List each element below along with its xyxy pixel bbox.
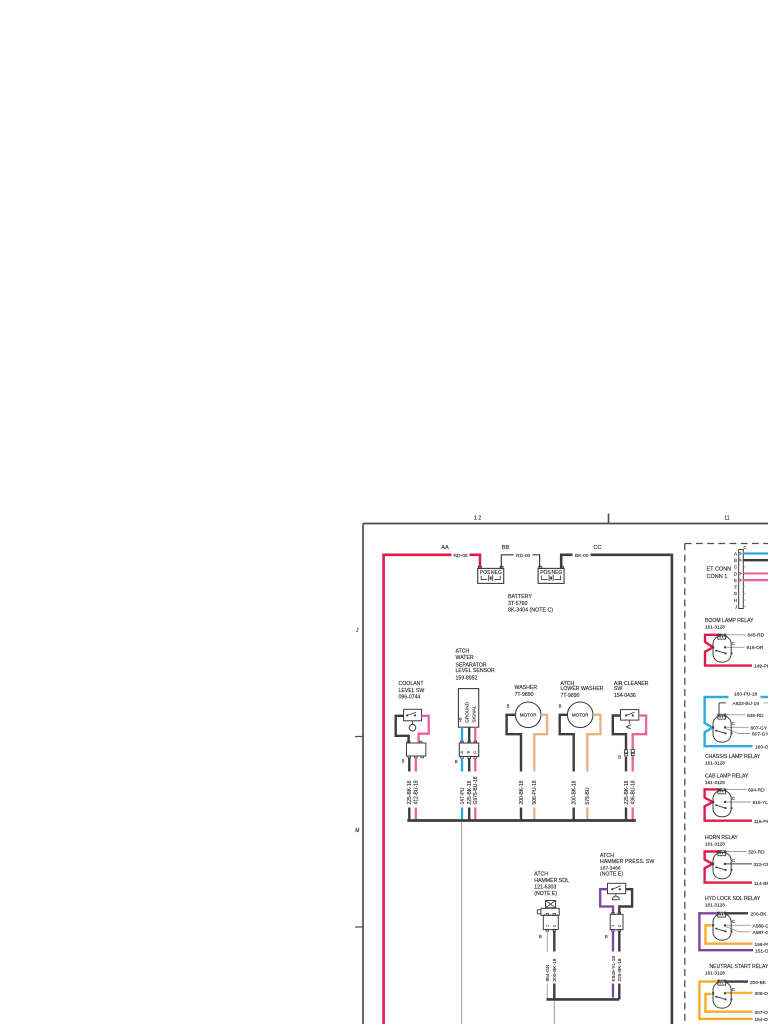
svg-text:B: B [507, 704, 510, 709]
svg-text:B: B [455, 759, 458, 764]
svg-text:(NOTE E): (NOTE E) [600, 872, 623, 878]
svg-text:615-YL: 615-YL [753, 800, 768, 806]
svg-text:CHASSIS LAMP RELAY: CHASSIS LAMP RELAY [705, 754, 761, 760]
svg-text:115-PK: 115-PK [754, 819, 768, 825]
svg-text:096-0744: 096-0744 [399, 695, 421, 701]
svg-text:C: C [472, 751, 477, 754]
svg-text:200-BK-18: 200-BK-18 [552, 958, 558, 981]
svg-text:A587-GY: A587-GY [753, 930, 768, 936]
svg-text:161-3128: 161-3128 [705, 760, 725, 765]
svg-text:+B: +B [457, 717, 462, 722]
svg-text:616-OR: 616-OR [747, 645, 764, 651]
svg-text:BATTERY: BATTERY [508, 594, 532, 600]
svg-text:225-BK-18: 225-BK-18 [467, 780, 473, 804]
svg-text:167-3466: 167-3466 [600, 865, 621, 871]
svg-text:CC: CC [593, 545, 601, 551]
svg-text:LEVEL SW: LEVEL SW [399, 688, 425, 694]
svg-text:GROUND: GROUND [465, 701, 470, 722]
svg-text:POS: POS [540, 570, 551, 576]
svg-text:225-BK-18: 225-BK-18 [407, 780, 413, 804]
svg-text:322-GN: 322-GN [754, 862, 768, 868]
svg-text:200-BK-18: 200-BK-18 [519, 780, 525, 804]
svg-text:(NOTE E): (NOTE E) [534, 891, 557, 897]
svg-text:114-BR: 114-BR [754, 881, 768, 887]
svg-text:307-OR: 307-OR [755, 1010, 768, 1016]
svg-text:161-3128: 161-3128 [705, 903, 725, 908]
svg-text:BB: BB [502, 545, 510, 551]
svg-text:C: C [743, 545, 746, 550]
svg-text:151-OR: 151-OR [755, 949, 768, 955]
svg-text:121-6303: 121-6303 [534, 885, 556, 891]
svg-text:147-PU: 147-PU [460, 787, 466, 804]
svg-text:B: B [605, 934, 608, 939]
svg-text:B: B [402, 759, 405, 764]
svg-text:A: A [734, 551, 737, 556]
svg-text:954-GN: 954-GN [545, 964, 551, 981]
svg-text:MOTOR: MOTOR [572, 713, 589, 718]
svg-text:1 2: 1 2 [474, 516, 481, 522]
svg-text:B: B [734, 558, 737, 563]
svg-text:K949-YL-18: K949-YL-18 [611, 956, 617, 982]
svg-text:B: B [618, 754, 621, 759]
svg-text:436-BU-18: 436-BU-18 [631, 780, 637, 804]
svg-text:225-BK-18: 225-BK-18 [617, 958, 623, 981]
svg-text:POS: POS [480, 570, 491, 576]
svg-text:F: F [734, 585, 737, 590]
svg-text:WASHER: WASHER [515, 685, 538, 691]
svg-text:161-3128: 161-3128 [705, 780, 725, 785]
svg-text:506-PU-18: 506-PU-18 [532, 780, 538, 804]
svg-text:A588-GY: A588-GY [753, 923, 768, 929]
svg-text:RD-00: RD-00 [516, 553, 530, 559]
svg-text:160-PU-18: 160-PU-18 [734, 691, 758, 697]
svg-text:646-RD: 646-RD [747, 713, 764, 719]
svg-text:MOTOR: MOTOR [520, 713, 537, 718]
svg-text:161-3128: 161-3128 [705, 624, 725, 629]
svg-text:HAMMER PRESS. SW: HAMMER PRESS. SW [600, 859, 654, 865]
svg-text:320-RD: 320-RD [748, 850, 765, 856]
svg-text:E: E [734, 578, 737, 583]
svg-text:G975-BU-18: G975-BU-18 [473, 776, 479, 804]
svg-text:HAMMER SOL: HAMMER SOL [534, 878, 569, 884]
svg-text:11: 11 [724, 516, 729, 522]
svg-text:BOOM LAMP RELAY: BOOM LAMP RELAY [705, 618, 754, 624]
svg-text:ATCH: ATCH [456, 649, 470, 655]
svg-text:694-RD: 694-RD [748, 788, 765, 794]
svg-text:HORN RELAY: HORN RELAY [705, 835, 738, 841]
svg-text:B: B [466, 751, 471, 754]
svg-text:607-GY: 607-GY [751, 726, 768, 732]
svg-text:H: H [734, 598, 737, 603]
svg-text:A623-BU-18: A623-BU-18 [733, 701, 760, 707]
svg-text:COOLANT: COOLANT [399, 681, 425, 687]
svg-text:200-BK: 200-BK [751, 911, 768, 917]
svg-text:8K-3404 (NOTE C): 8K-3404 (NOTE C) [508, 608, 553, 614]
svg-text:ATCH: ATCH [534, 872, 548, 878]
svg-text:154-OR: 154-OR [755, 1017, 768, 1023]
svg-text:ATCH: ATCH [600, 853, 614, 859]
svg-text:LOWER WASHER: LOWER WASHER [561, 686, 604, 692]
svg-text:200-BK: 200-BK [750, 980, 767, 986]
svg-text:B: B [539, 934, 542, 939]
svg-text:ET CONN: ET CONN [707, 567, 732, 573]
svg-text:LEVEL SENSOR: LEVEL SENSOR [456, 668, 496, 674]
svg-text:7T-9890: 7T-9890 [515, 692, 534, 698]
svg-text:A: A [459, 751, 464, 754]
svg-text:306-OR: 306-OR [755, 991, 768, 997]
svg-text:G: G [734, 591, 738, 596]
svg-text:199-PU: 199-PU [755, 942, 768, 948]
svg-text:2: 2 [552, 925, 556, 927]
svg-text:160-OR: 160-OR [755, 744, 768, 750]
svg-text:1: 1 [545, 925, 549, 927]
svg-text:225-BK-18: 225-BK-18 [624, 780, 630, 804]
svg-text:2: 2 [617, 925, 621, 927]
svg-text:RD-00: RD-00 [454, 553, 468, 559]
svg-text:149-PK: 149-PK [754, 664, 768, 670]
svg-text:M: M [355, 828, 359, 834]
svg-text:412-BU-18: 412-BU-18 [414, 780, 420, 804]
svg-text:161-3128: 161-3128 [705, 842, 725, 847]
svg-text:NEUTRAL START RELAY: NEUTRAL START RELAY [710, 964, 768, 970]
svg-text:154-0436: 154-0436 [614, 693, 636, 699]
svg-text:645-RD: 645-RD [748, 633, 765, 639]
svg-text:159-8952: 159-8952 [456, 676, 478, 682]
svg-text:607-GY: 607-GY [752, 732, 768, 738]
svg-text:J: J [735, 605, 737, 610]
svg-text:CAB LAMP RELAY: CAB LAMP RELAY [705, 774, 749, 780]
svg-text:7T-9890: 7T-9890 [561, 693, 580, 699]
svg-text:1: 1 [611, 925, 615, 927]
svg-text:SIGNAL: SIGNAL [471, 705, 476, 723]
svg-text:BK-00: BK-00 [575, 553, 589, 559]
svg-text:WATER: WATER [456, 655, 474, 661]
svg-text:AA: AA [441, 545, 449, 551]
svg-text:3T-5760: 3T-5760 [508, 601, 527, 607]
svg-text:579-BU: 579-BU [585, 787, 591, 804]
svg-text:HYD LOCK SOL RELAY: HYD LOCK SOL RELAY [705, 896, 761, 902]
svg-text:CONN 1: CONN 1 [707, 574, 728, 580]
svg-text:SW: SW [614, 686, 622, 692]
svg-text:200-BK-18: 200-BK-18 [572, 780, 578, 804]
svg-text:161-3128: 161-3128 [705, 971, 725, 976]
svg-text:B: B [559, 704, 562, 709]
